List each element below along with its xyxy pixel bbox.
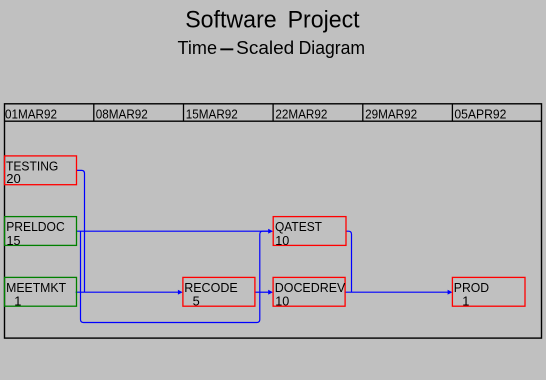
header tick 1 xyxy=(93,104,95,121)
arrowhead into PROD xyxy=(448,290,453,295)
header tick 5 xyxy=(451,104,453,121)
svg-text:22MAR92: 22MAR92 xyxy=(275,106,327,121)
svg-text:05APR92: 05APR92 xyxy=(454,106,506,121)
arrowhead into QATEST xyxy=(268,229,273,234)
arc QATEST to PROD xyxy=(346,231,351,292)
arc RECODE to DOCEDREV xyxy=(255,291,268,293)
header tick 3 xyxy=(272,104,274,121)
arc PRELDOC to QATEST xyxy=(76,230,268,232)
arc TESTING to RECODE xyxy=(76,170,84,292)
svg-text:Diagram: Diagram xyxy=(299,37,366,58)
axis frame xyxy=(5,104,542,338)
svg-text:15: 15 xyxy=(7,233,21,248)
svg-text:Time: Time xyxy=(178,37,218,58)
header tick 2 xyxy=(183,104,185,121)
svg-text:Software: Software xyxy=(185,6,277,33)
svg-text:1: 1 xyxy=(14,294,21,309)
arc DOCEDREV to PROD xyxy=(345,291,448,293)
arrowhead into RECODE xyxy=(178,290,183,295)
node MEETMKT box xyxy=(5,277,77,306)
arc RECODE to QATEST xyxy=(260,231,269,292)
svg-text:08MAR92: 08MAR92 xyxy=(96,106,148,121)
svg-text:1: 1 xyxy=(462,294,469,309)
header separator line xyxy=(4,120,541,122)
svg-text:Project: Project xyxy=(288,6,360,33)
svg-text:PROD: PROD xyxy=(454,280,489,295)
node RECODE box xyxy=(183,277,255,306)
svg-text:29MAR92: 29MAR92 xyxy=(365,106,417,121)
arc PRELDOC to DOCEDREV xyxy=(81,231,260,322)
node TESTING box xyxy=(5,156,77,185)
header tick 4 xyxy=(362,104,364,121)
node PROD box xyxy=(452,277,525,306)
svg-text:20: 20 xyxy=(6,171,20,186)
node PRELDOC box xyxy=(5,217,77,246)
svg-text:15MAR92: 15MAR92 xyxy=(186,106,238,121)
svg-text:5: 5 xyxy=(193,294,200,309)
dash in subtitle xyxy=(220,48,233,50)
arrowhead into DOCEDREV xyxy=(268,290,273,295)
node DOCEDREV box xyxy=(273,277,345,306)
svg-text:01MAR92: 01MAR92 xyxy=(5,106,57,121)
svg-text:10: 10 xyxy=(275,233,289,248)
svg-text:Scaled: Scaled xyxy=(236,37,294,58)
svg-text:10: 10 xyxy=(275,294,289,309)
arc MEETMKT to RECODE xyxy=(76,291,179,293)
node QATEST box xyxy=(273,217,346,246)
